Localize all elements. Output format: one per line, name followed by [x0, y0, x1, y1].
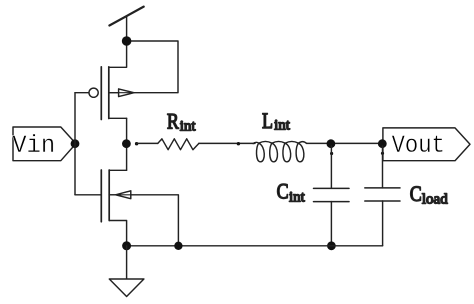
- wire resistor to inductor: [199, 142, 255, 144]
- node D (small): [135, 142, 138, 145]
- power VDD symbol: [109, 7, 143, 26]
- gate bubble: [89, 88, 98, 97]
- svg-text:C: C: [277, 180, 289, 204]
- wire bulk loop top: [127, 41, 178, 93]
- svg-text:L: L: [262, 109, 273, 133]
- node L (rail junction): [327, 241, 336, 250]
- bulk arrow (points right): [119, 89, 134, 97]
- bulk arrow (points left): [116, 191, 131, 199]
- node K (bulk rail): [174, 242, 182, 250]
- svg-text:Vin: Vin: [12, 133, 55, 161]
- drain stub: [109, 117, 127, 119]
- source stub: [109, 221, 126, 246]
- wire PMOS drain to NMOS drain: [126, 118, 128, 170]
- label R_int: [167, 110, 196, 135]
- gate plate: [100, 67, 102, 120]
- svg-text:int: int: [289, 190, 306, 206]
- label L_int: [262, 109, 291, 134]
- ground: [109, 246, 144, 297]
- wire output to resistor: [137, 142, 158, 144]
- node H (small): [330, 152, 333, 155]
- svg-text:load: load: [422, 192, 448, 208]
- inductor L_int: [253, 141, 306, 161]
- node I (small): [381, 152, 384, 155]
- transistor M1 PMOS: [75, 67, 134, 120]
- capacitor C_int: [314, 188, 350, 201]
- wire gate vertical: [74, 93, 76, 195]
- channel plate: [108, 170, 110, 221]
- capacitor C_load: [365, 188, 400, 201]
- label C_load: [410, 182, 449, 207]
- wire C_load to ground rail: [382, 201, 384, 246]
- node B (VDD node): [122, 36, 132, 46]
- bulk stub: [109, 194, 115, 196]
- wire VDD node to PMOS source: [109, 41, 127, 67]
- svg-text:Vout: Vout: [392, 132, 445, 161]
- wire VDD stub: [126, 17, 128, 42]
- wire NMOS bulk to ground rail: [131, 195, 179, 246]
- gate stub: [75, 92, 89, 94]
- label C_int: [277, 180, 306, 206]
- gate stub: [75, 194, 101, 196]
- wire ground rail: [127, 245, 383, 247]
- node A (input gate node): [71, 139, 80, 148]
- node E (small): [237, 142, 240, 145]
- output tag Vout: [383, 128, 470, 161]
- node G: [378, 139, 387, 148]
- svg-text:int: int: [274, 118, 291, 134]
- input tag Vin: [13, 127, 76, 161]
- bulk stub: [109, 92, 119, 94]
- node C (inverter output): [122, 139, 131, 148]
- gate plate: [100, 170, 102, 222]
- wire node G to C_load: [382, 146, 384, 188]
- drain stub: [109, 169, 126, 171]
- node J (NMOS source rail): [122, 241, 131, 250]
- wire C_int to ground rail: [330, 202, 332, 246]
- wire node F to C_int: [330, 146, 332, 188]
- transistor M2 NMOS: [75, 170, 131, 246]
- wire inductor to Vout: [307, 142, 383, 144]
- resistor R_int: [158, 139, 199, 150]
- svg-text:R: R: [167, 110, 179, 134]
- channel plate: [108, 67, 110, 119]
- svg-text:int: int: [180, 119, 197, 135]
- node F: [327, 139, 336, 148]
- svg-text:C: C: [410, 182, 422, 206]
